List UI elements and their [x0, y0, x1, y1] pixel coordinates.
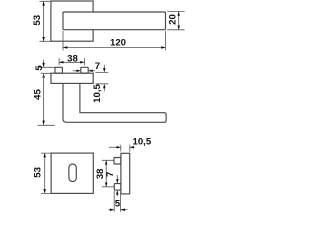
- dim 10,5 front: upper arrow: [103, 65, 105, 72]
- dim 10,5 front: extension lines: [95, 73, 108, 84]
- dim 5: arrow up: [42, 74, 45, 78]
- dim 38 front: extension lines: [59, 58, 84, 65]
- dim 53 bottom: extension lines: [41, 153, 51, 193]
- svg-text:38: 38: [95, 168, 106, 179]
- dim 7 side: upper arrow: [116, 175, 118, 183]
- dim 53 top: dimension line: [43, 1, 45, 41]
- dim 7 front: left arrow: [73, 70, 80, 72]
- dim 5 side: extension lines: [114, 191, 120, 212]
- dim 7 side: lower arrow: [116, 191, 118, 196]
- lever bar top view: [63, 12, 166, 30]
- svg-text:10,5: 10,5: [92, 84, 103, 103]
- dim 38 side: arrow up: [105, 160, 108, 164]
- dim 10,5 front: lower arrow: [103, 85, 105, 92]
- dim 53 bottom: arrow up: [43, 153, 46, 157]
- rose plate front view: [51, 73, 93, 83]
- dim 38 front: dimension line: [59, 61, 84, 63]
- rose square bottom view: [51, 153, 93, 193]
- right pin front view: [81, 67, 88, 73]
- dim 20: dimension line: [178, 12, 180, 30]
- dim 5: extension lines: [39, 67, 55, 73]
- dim 5 side: right arrow: [121, 209, 128, 211]
- svg-text:10,5: 10,5: [133, 136, 152, 147]
- dim 10,5 side: extension lines: [121, 145, 130, 152]
- dim 10,5 side: left arrow: [109, 146, 121, 148]
- lever handle front view: [63, 83, 166, 122]
- svg-text:120: 120: [110, 37, 126, 48]
- svg-text:5: 5: [34, 65, 45, 71]
- dim 53 top: arrow up: [42, 1, 45, 5]
- dim 45: dimension line: [43, 74, 45, 125]
- left pin front view: [55, 67, 62, 73]
- dim 20: arrow down: [177, 26, 180, 30]
- dim 5 side: left arrow: [108, 209, 113, 211]
- dim 120: extension lines: [63, 31, 166, 50]
- svg-text:38: 38: [67, 53, 78, 64]
- svg-text:20: 20: [168, 14, 179, 25]
- dim 53 top: extension lines: [40, 1, 51, 41]
- dim 45: bottom extension line: [38, 124, 55, 126]
- dim 38 side: dimension line: [105, 160, 107, 187]
- dim 120: arrow left: [63, 46, 67, 49]
- dim 53 bottom: dimension line: [44, 153, 46, 193]
- svg-text:5: 5: [115, 198, 121, 209]
- dim 38 side: arrow down: [105, 183, 108, 187]
- svg-text:53: 53: [32, 15, 43, 26]
- dim 38 front: arrow right: [80, 61, 84, 64]
- dim 38 front: arrow left: [59, 61, 63, 64]
- svg-text:53: 53: [33, 167, 44, 178]
- dim 5: upper arrow line: [43, 60, 45, 67]
- dim 7 front: right arrow: [89, 70, 95, 72]
- dim 5: arrow down: [42, 63, 45, 67]
- dim 20: arrow up: [177, 12, 180, 16]
- dim 20: extension lines: [167, 12, 184, 30]
- dim 10,5 side: right arrow: [130, 146, 133, 148]
- top pin side view: [114, 158, 121, 165]
- svg-text:45: 45: [33, 89, 44, 100]
- dim 45: arrow down: [42, 121, 45, 125]
- dim 53 bottom: arrow down: [43, 189, 46, 193]
- svg-text:7: 7: [105, 172, 116, 177]
- dim 120: arrow right: [161, 46, 165, 49]
- bottom pin side view: [114, 184, 121, 191]
- svg-text:7: 7: [95, 61, 100, 72]
- dim 53 top: arrow down: [42, 37, 45, 41]
- keyhole: [69, 164, 76, 182]
- rose square top view: [51, 1, 93, 41]
- dim 38 side: extension lines: [102, 160, 114, 187]
- rose profile side view: [121, 153, 130, 194]
- dim 120: dimension line: [63, 47, 166, 49]
